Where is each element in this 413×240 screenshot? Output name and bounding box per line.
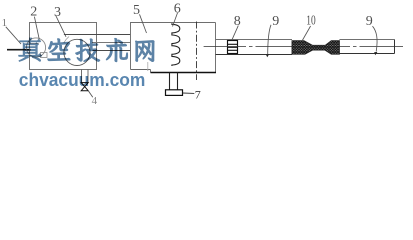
leader 4	[88, 90, 93, 97]
small step line	[147, 62, 149, 71]
leader 6	[173, 13, 178, 27]
svg-text:7: 7	[195, 88, 201, 102]
svg-text:4: 4	[92, 95, 98, 104]
chamber box 1 (gun housing)	[30, 23, 97, 70]
svg-text:5: 5	[133, 3, 140, 18]
box 5 right wall	[215, 23, 217, 73]
anode tube top line	[64, 34, 131, 36]
leader 5	[140, 14, 147, 33]
striped coupling (part 8)	[228, 41, 238, 54]
svg-text:chvacuum.com: chvacuum.com	[19, 69, 146, 90]
svg-text:2: 2	[30, 5, 37, 20]
leader 9 right with arrow	[373, 26, 378, 51]
big circle (pump body)	[64, 39, 90, 65]
shaft right end	[394, 40, 396, 54]
bellows (part 6)	[172, 23, 180, 66]
foot (part 7)	[166, 90, 183, 96]
inner detail rect	[41, 53, 48, 58]
pipe to valve	[81, 70, 83, 83]
svg-text:8: 8	[234, 14, 241, 29]
watermark line 1	[19, 38, 154, 62]
svg-text:9: 9	[272, 14, 279, 29]
leader 1	[6, 27, 21, 44]
tube mid line	[92, 42, 131, 44]
leader 2	[34, 17, 39, 40]
svg-text:3: 3	[54, 5, 61, 20]
leader 9 left with arrow	[268, 25, 271, 56]
leader 10	[302, 26, 311, 41]
vertical centerline	[196, 22, 198, 81]
small arc detail at leader 3 tip	[64, 37, 69, 43]
hatched hourglass section (part 10)	[292, 41, 339, 55]
tube bottom line	[93, 50, 131, 52]
svg-text:10: 10	[306, 14, 315, 29]
inner line (filament lead)	[30, 43, 40, 45]
leader 3	[56, 16, 66, 37]
dark base line	[151, 72, 217, 74]
leader 8	[232, 26, 239, 41]
feedthrough rod	[7, 49, 31, 51]
small circle (cathode insulator)	[26, 38, 45, 57]
valve (part 4)	[81, 83, 88, 91]
stand legs	[169, 73, 171, 90]
horizontal axis centerline	[204, 46, 403, 48]
shaft bottom edge	[216, 54, 293, 56]
svg-text:9: 9	[366, 14, 373, 29]
chamber box 5 outline	[131, 23, 216, 70]
leader 7	[183, 92, 195, 94]
shaft top edge	[216, 39, 293, 41]
